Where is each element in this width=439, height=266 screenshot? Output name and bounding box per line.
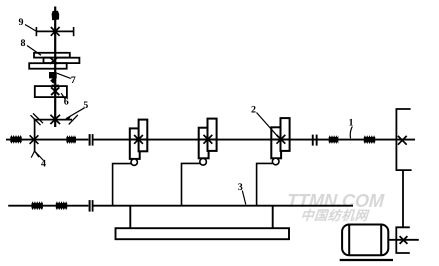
- cone pulley step 2: [44, 58, 80, 63]
- main shaft long segment: [94, 139, 416, 141]
- main shaft bearing hatch B: [66, 135, 76, 144]
- cross 4 on main shaft: [30, 135, 39, 144]
- drum unit A3 shaft reveal: [271, 139, 289, 141]
- bottom shaft bearing hatch A: [32, 201, 43, 210]
- frame left leg: [129, 207, 131, 229]
- drum unit A1 right gear: [139, 120, 148, 152]
- label 2 pointer: [257, 113, 279, 138]
- main shaft bearing hatch A: [10, 135, 21, 144]
- whorl bar 5: [34, 119, 72, 121]
- drum unit A1 bracket wire: [113, 164, 131, 206]
- frame rail: [94, 205, 354, 207]
- frame base slab: [116, 228, 290, 239]
- drum unit A2 bracket wire: [182, 163, 200, 205]
- drum unit A1 cross: [134, 135, 143, 144]
- spindle shaft (vertical): [54, 7, 56, 128]
- bottom shaft left segment: [8, 205, 88, 207]
- right end cross: [398, 136, 407, 145]
- svg-text:7: 7: [71, 75, 76, 86]
- drum unit A2 left gear: [199, 128, 209, 159]
- drum unit A1 circle: [131, 159, 137, 165]
- guide box cross: [51, 87, 59, 95]
- label 1 pointer: [350, 127, 352, 139]
- weight arrow tip: [51, 85, 59, 89]
- cone pulley cross: [50, 58, 58, 64]
- drum unit A1 shaft reveal: [130, 139, 148, 141]
- main shaft bearing hatch C: [329, 135, 339, 144]
- label 5 pointer: [66, 108, 85, 119]
- svg-text:5: 5: [83, 100, 88, 111]
- cone pulley step 1: [34, 53, 70, 58]
- bearing 9 cross: [51, 27, 60, 36]
- belt slash right: [69, 115, 78, 125]
- label 9 pointer: [25, 25, 36, 32]
- guide box 6: [35, 86, 67, 97]
- svg-text:9: 9: [19, 17, 24, 28]
- main shaft coupling bar 1: [89, 134, 91, 146]
- bearing 9 right tick: [73, 27, 75, 36]
- drum unit A3 right gear: [281, 118, 290, 151]
- svg-text:2: 2: [251, 105, 256, 116]
- svg-text:8: 8: [21, 38, 26, 49]
- whorl cross: [50, 115, 60, 124]
- tension weight blob 7: [49, 72, 57, 78]
- motor bracket: [396, 227, 410, 253]
- tension weight diamond: [50, 78, 56, 84]
- main shaft coupling bar 2: [92, 134, 94, 146]
- main shaft left segment: [6, 139, 88, 141]
- tangential drop wire: [34, 120, 36, 153]
- belt slash left b: [33, 113, 43, 123]
- right end bracket: [396, 109, 411, 170]
- motor base line: [340, 259, 393, 261]
- bottom coupling bar 2: [92, 200, 94, 212]
- bottom shaft bearing hatch B: [56, 201, 67, 210]
- drum unit A2 circle: [200, 159, 207, 166]
- motor end cap right: [380, 225, 382, 256]
- drum unit A3 left gear: [271, 127, 281, 158]
- label 3 pointer: [242, 191, 246, 205]
- drum unit A2 right gear: [208, 119, 217, 151]
- frame right leg: [272, 207, 274, 229]
- label 4 pointer with open arrowhead: [31, 151, 43, 161]
- bottom coupling bar 1: [89, 200, 91, 212]
- motor shaft cross: [400, 236, 408, 244]
- drum unit A3 circle: [272, 158, 279, 165]
- right coupling bar 1: [312, 135, 314, 146]
- bobbin blob (top): [52, 11, 60, 20]
- motor body: [342, 225, 388, 256]
- label 6 pointer: [61, 93, 65, 99]
- label 7 pointer: [57, 73, 71, 78]
- label 5 arrowhead: [64, 115, 71, 120]
- vertical connector wire: [402, 170, 404, 227]
- bearing 9 bar: [36, 30, 73, 32]
- drum unit A2 shaft reveal: [199, 139, 217, 141]
- main shaft bearing hatch D: [364, 135, 375, 144]
- drum unit A2 cross: [204, 135, 213, 144]
- drum unit A1 left gear: [130, 128, 140, 159]
- drum unit A3 bracket wire: [257, 163, 273, 205]
- label 8 pointer: [27, 46, 41, 56]
- right coupling bar 2: [316, 135, 318, 146]
- belt slash left a: [31, 115, 41, 125]
- motor shaft: [389, 239, 419, 241]
- drum unit A3 cross: [277, 135, 286, 144]
- cone pulley step 3: [29, 63, 66, 68]
- motor end cap left: [348, 225, 350, 256]
- bearing 9 left tick: [35, 27, 37, 36]
- watermark TTMN.COM 中国纺机网: [279, 194, 391, 222]
